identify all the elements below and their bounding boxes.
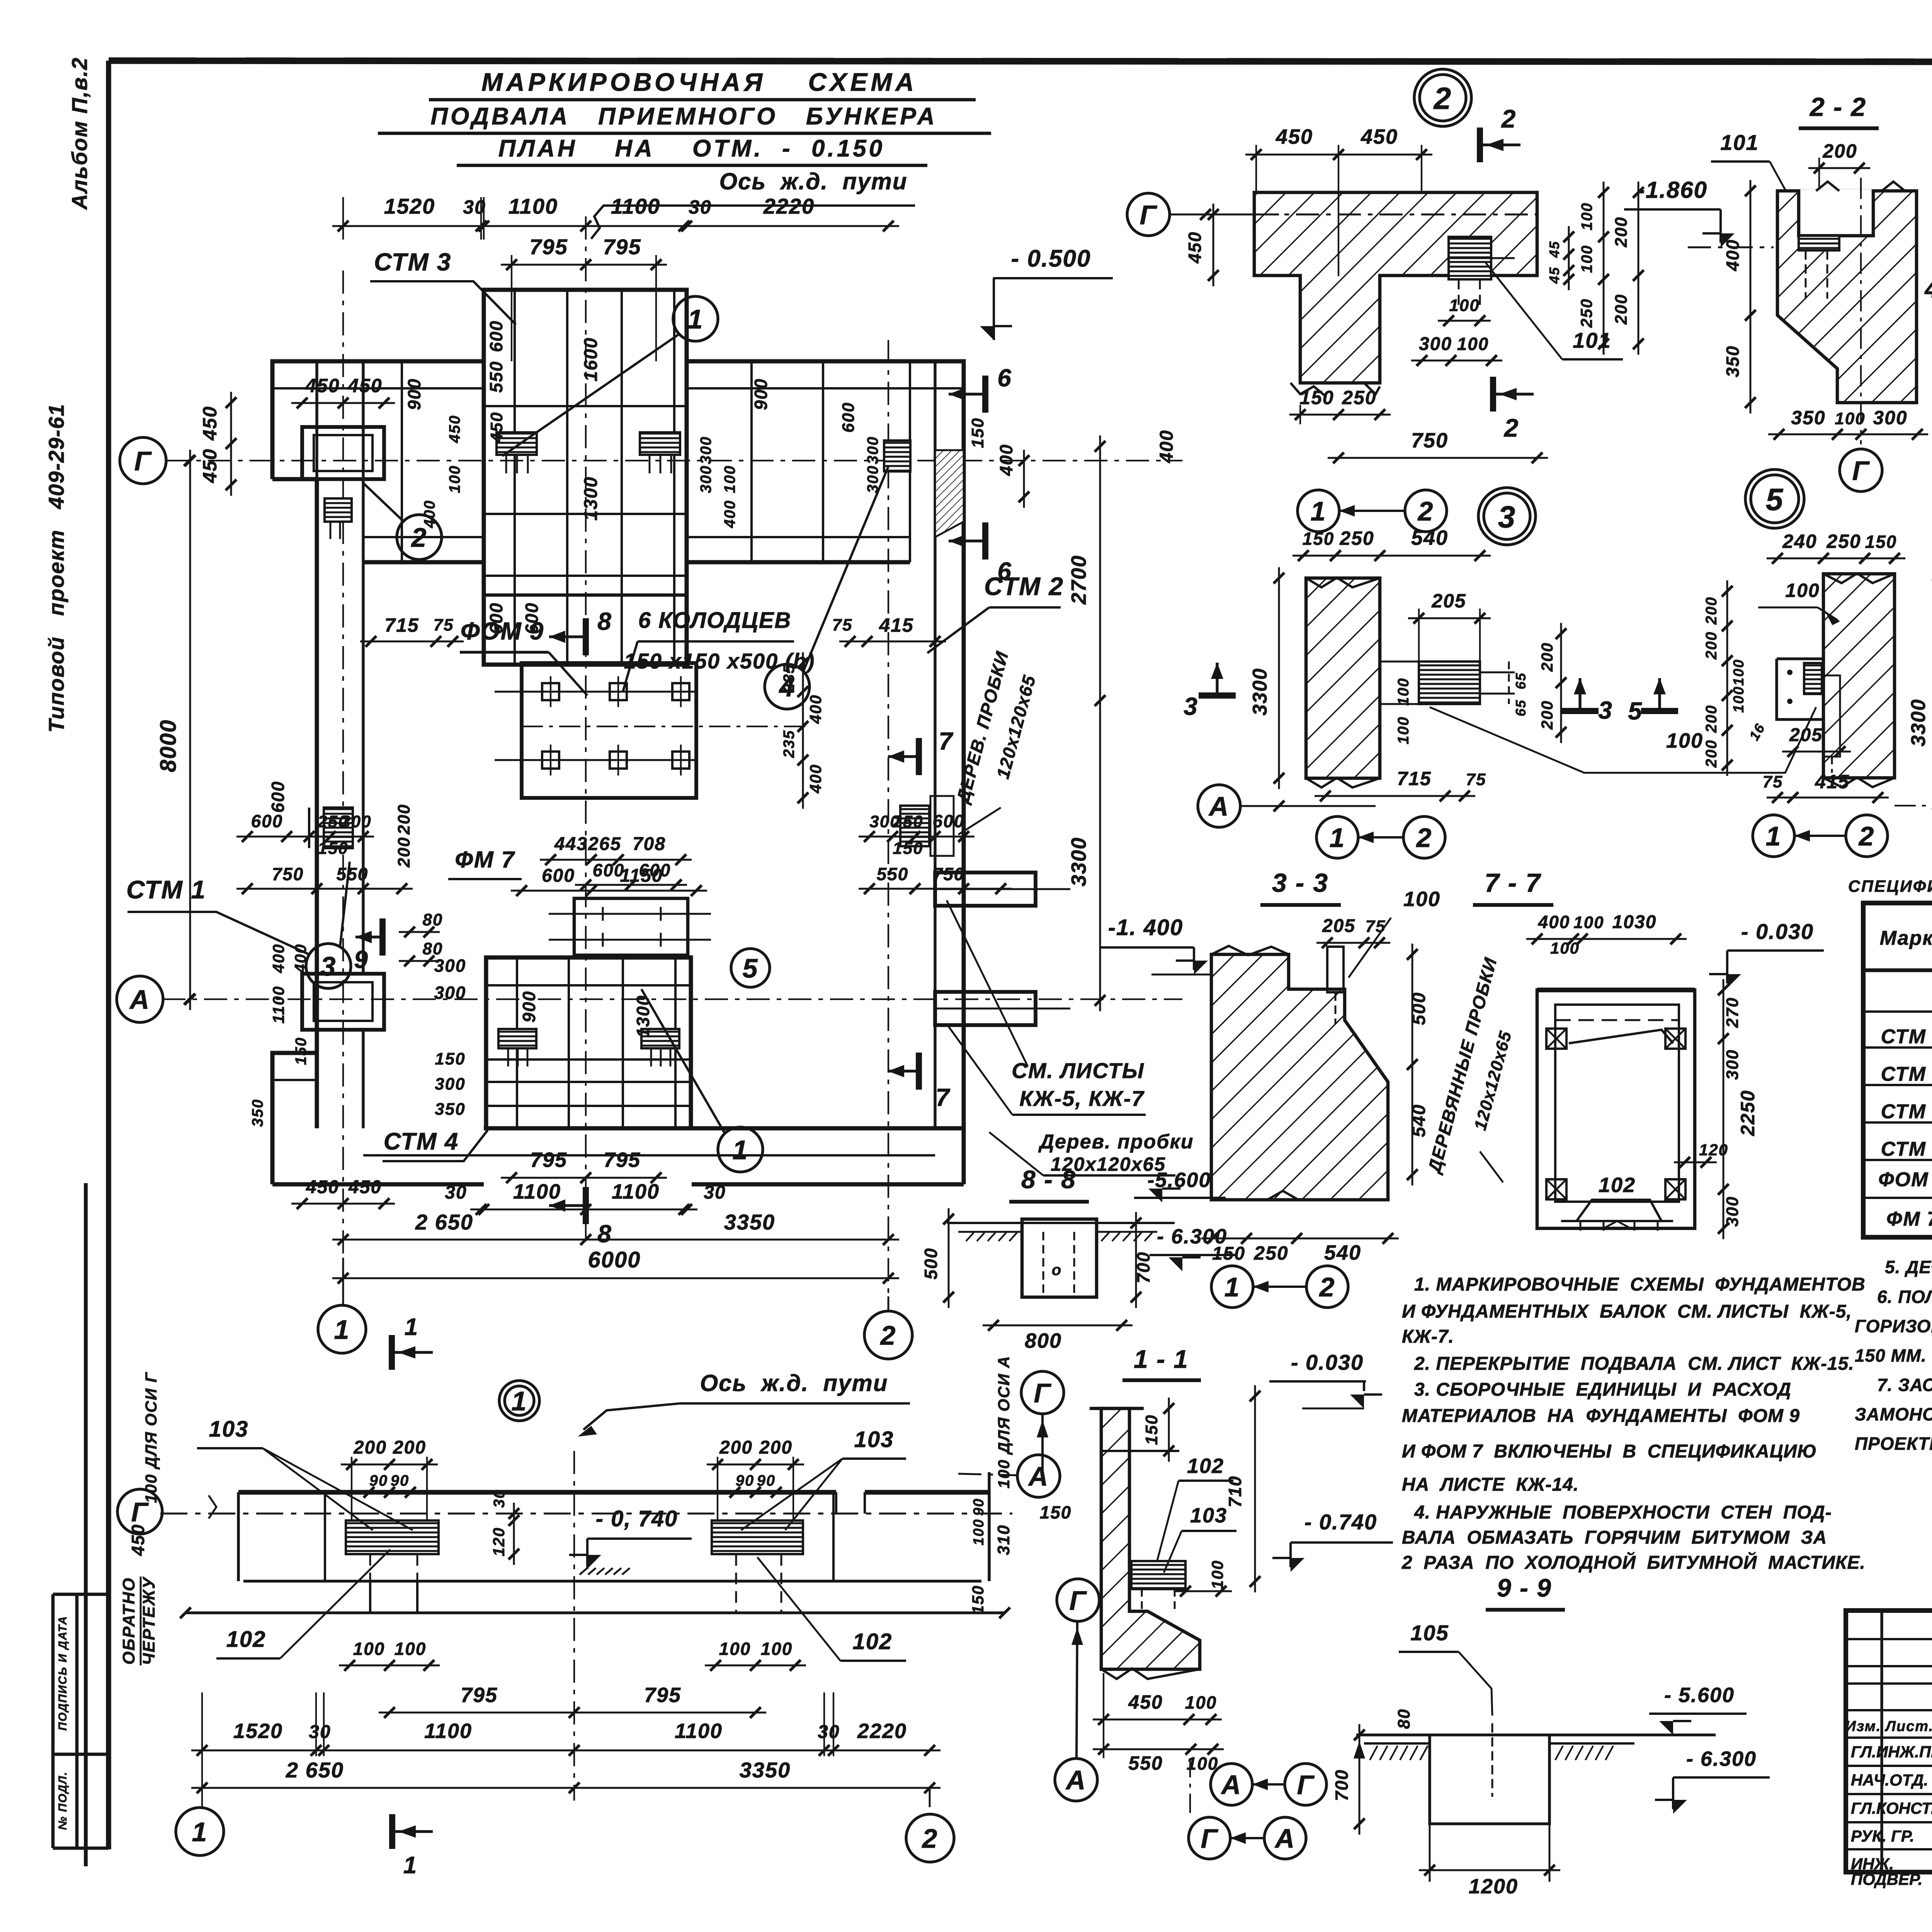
svg-text:450: 450 xyxy=(1361,125,1398,148)
svg-text:100: 100 xyxy=(1208,1560,1226,1589)
svg-text:200: 200 xyxy=(1612,216,1631,247)
svg-text:- 0.500: - 0.500 xyxy=(1011,245,1091,272)
svg-text:5: 5 xyxy=(743,953,759,983)
svg-text:101: 101 xyxy=(1720,130,1759,155)
svg-text:МАТЕРИАЛОВ НА ФУНДАМЕНТЫ ФО: МАТЕРИАЛОВ НА ФУНДАМЕНТЫ ФОМ 9 xyxy=(1402,1406,1800,1426)
notes block left (items 1-4) xyxy=(1401,1274,1866,1573)
svg-text:400: 400 xyxy=(806,694,825,724)
svg-text:Марка: Марка xyxy=(1880,927,1932,949)
title block: bottom row ПОДВЕР xyxy=(1851,1870,1932,1888)
section 7-7: level -0.030 xyxy=(1709,919,1824,988)
svg-text:100: 100 xyxy=(1731,686,1747,713)
detail 5: title circle xyxy=(1745,469,1804,528)
label СТМ4 xyxy=(383,1128,488,1161)
svg-text:120: 120 xyxy=(490,1527,508,1556)
svg-text:300: 300 xyxy=(697,465,714,493)
svg-text:600: 600 xyxy=(593,860,625,880)
svg-text:300: 300 xyxy=(864,436,881,464)
section 1-1: beam with plates (102/103) xyxy=(1131,1561,1185,1611)
svg-text:235: 235 xyxy=(781,730,798,759)
svg-text:6: 6 xyxy=(997,557,1012,585)
detail 2-2: level -1.860 xyxy=(1624,177,1774,247)
detail 3: anchor plate assembly xyxy=(1380,662,1515,704)
svg-text:450: 450 xyxy=(446,415,463,444)
section 9-9: leader 105 xyxy=(1399,1621,1492,1716)
svg-text:7: 7 xyxy=(935,1083,951,1111)
section 3-3: plate pocket dashed xyxy=(1306,947,1345,1024)
section 1-1: level -0.030 xyxy=(1269,1350,1382,1408)
section 1-1: hatched wall xyxy=(1090,1408,1200,1679)
svg-text:- 0, 740: - 0, 740 xyxy=(596,1506,678,1531)
svg-text:200: 200 xyxy=(395,804,413,835)
svg-text:1520: 1520 xyxy=(384,194,435,218)
sheet title: МАРКИРОВОЧНАЯ СХЕМА xyxy=(378,68,991,165)
section 3-3: level -1.400 xyxy=(1099,915,1211,975)
svg-text:45: 45 xyxy=(1546,267,1562,284)
detail 2: title circle xyxy=(1414,69,1471,126)
bottom plan: grid bubble Г left xyxy=(117,1489,162,1534)
svg-text:ГЛ.КОНСТ.: ГЛ.КОНСТ. xyxy=(1851,1799,1932,1817)
svg-text:550: 550 xyxy=(337,864,369,884)
section flag 9-9 upper xyxy=(354,918,383,973)
bottom plan: dim chain 2650/3350 xyxy=(191,1692,940,1808)
svg-text:100: 100 xyxy=(1785,580,1820,601)
svg-text:100: 100 xyxy=(1403,888,1440,911)
detail 2: anchor plate with bolts xyxy=(1449,237,1515,305)
svg-text:600: 600 xyxy=(486,602,506,634)
svg-text:3350: 3350 xyxy=(740,1758,791,1782)
bottom plan: section flag 1 top xyxy=(392,1314,433,1370)
svg-text:350: 350 xyxy=(249,1099,266,1127)
svg-text:100: 100 xyxy=(1578,245,1595,273)
svg-text:Г: Г xyxy=(1852,456,1870,486)
detail 3: dims 715/75 xyxy=(1315,768,1486,801)
section 8-8: footing with ground xyxy=(947,1219,1175,1297)
section 7-7: title xyxy=(1473,868,1553,905)
svg-text:2250: 2250 xyxy=(1737,1090,1759,1136)
foundation pad ФМ7 xyxy=(549,898,711,955)
svg-text:240: 240 xyxy=(1782,531,1817,552)
svg-text:400: 400 xyxy=(291,944,310,973)
svg-text:2220: 2220 xyxy=(763,194,815,218)
svg-text:9: 9 xyxy=(354,946,369,973)
svg-text:450: 450 xyxy=(199,406,221,440)
bottom plan: grid bubble А right xyxy=(958,1455,1060,1497)
label: Ось ж.д. пути (top plan) xyxy=(591,168,915,239)
svg-text:МАРКИРОВОЧНАЯ СХЕМА: МАРКИРОВОЧНАЯ СХЕМА xyxy=(481,68,917,96)
bottom plan: hatched block right (beam 103) xyxy=(712,1520,803,1613)
svg-text:150: 150 xyxy=(1299,387,1334,408)
detail 3: title circle xyxy=(1478,488,1536,545)
svg-text:205: 205 xyxy=(1322,916,1355,936)
svg-text:ЗАМОНОЛИЧИВАНИЯ ПОКРЫТИЯ И: ЗАМОНОЛИЧИВАНИЯ ПОКРЫТИЯ И ПОСЛЕ ДОСТИЖЕ… xyxy=(1855,1404,1932,1424)
svg-text:450: 450 xyxy=(305,375,340,396)
section flag 6-6 lower xyxy=(949,522,1012,585)
svg-text:150: 150 xyxy=(1040,1502,1072,1522)
detail 5: dims 75/415 xyxy=(1763,771,1889,803)
ФОМ9 dims 443/265/708 + 600/1150 xyxy=(511,834,707,896)
svg-text:2 650: 2 650 xyxy=(286,1758,344,1782)
specification row СТМ 1 xyxy=(1881,1026,1932,1048)
svg-text:3 - 3: 3 - 3 xyxy=(1272,868,1328,898)
detail 2: right vertical dims xyxy=(1546,182,1644,355)
right dim 400 top xyxy=(1156,430,1177,463)
svg-text:310: 310 xyxy=(994,1524,1013,1555)
svg-text:7: 7 xyxy=(939,727,954,755)
svg-text:3300: 3300 xyxy=(1907,699,1930,747)
svg-text:400: 400 xyxy=(806,764,825,794)
anchor plate on axis Г (right) xyxy=(640,432,680,473)
svg-text:200: 200 xyxy=(1703,597,1720,625)
foundation pad ФОМ9 xyxy=(495,663,808,798)
svg-text:-1. 400: -1. 400 xyxy=(1108,915,1184,940)
label 6 колодцев 150х150х500(h) xyxy=(623,608,815,692)
svg-text:2: 2 xyxy=(1858,821,1875,851)
svg-text:900: 900 xyxy=(519,991,539,1023)
detail 5: top dims 240/250/150 xyxy=(1767,531,1905,564)
svg-text:СТМ 2: СТМ 2 xyxy=(984,572,1064,600)
svg-text:150: 150 xyxy=(1142,1414,1161,1445)
bunker beam slots right wall xyxy=(935,872,1070,1025)
bottom plan: section flag 1 bottom xyxy=(392,1814,433,1879)
svg-text:90: 90 xyxy=(736,1472,755,1489)
svg-text:90: 90 xyxy=(971,1498,987,1516)
svg-text:250: 250 xyxy=(1826,531,1861,552)
bottom plan: dim chain 1520/30/1100/1100/30/2220 xyxy=(191,1692,940,1756)
svg-text:450: 450 xyxy=(1276,125,1313,148)
svg-text:СТМ 4: СТМ 4 xyxy=(384,1128,459,1155)
detail 5: bottom grid bubbles 1-2 xyxy=(1753,815,1888,857)
svg-text:100: 100 xyxy=(353,1639,385,1659)
svg-text:100: 100 xyxy=(1666,729,1703,752)
svg-text:200: 200 xyxy=(1822,140,1857,162)
grid bubble 2 (bottom of plan) xyxy=(864,1296,912,1359)
detail circle 1 with leader xyxy=(502,296,718,456)
left opening pad bottom (well) xyxy=(302,974,384,1030)
svg-text:30: 30 xyxy=(309,1722,331,1742)
svg-text:ОБРАТНО: ОБРАТНО xyxy=(119,1577,138,1665)
detail 5: hatched wall xyxy=(1823,573,1895,787)
svg-text:100 ДЛЯ ОСИ Г: 100 ДЛЯ ОСИ Г xyxy=(142,1372,160,1503)
bottom plan: dims 200/200 + 90/90 right block xyxy=(707,1437,804,1520)
grid bubble 1 (bottom of plan) xyxy=(318,1258,366,1353)
svg-text:100: 100 xyxy=(1185,1692,1217,1713)
anchor plate on axis А (right) xyxy=(641,1029,679,1066)
section 8-8: dims 500/700/800 + level -6.300 xyxy=(921,1208,1236,1352)
svg-text:540: 540 xyxy=(1409,1104,1429,1137)
svg-text:600: 600 xyxy=(542,866,575,886)
left opening pad top (well) xyxy=(302,427,384,479)
svg-text:1: 1 xyxy=(405,1314,418,1340)
svg-text:350: 350 xyxy=(435,1100,465,1119)
ФМ7 label and dims xyxy=(399,847,687,966)
section 9-9: pit section xyxy=(1356,1723,1716,1824)
svg-text:Ось ж.д. пути: Ось ж.д. пути xyxy=(700,1370,888,1396)
svg-text:30: 30 xyxy=(491,1489,508,1508)
detail 3: top dims 150/250/540 xyxy=(1293,526,1491,561)
label см.листы КЖ-5, КЖ-7 xyxy=(947,900,1146,1115)
svg-text:7. ЗАСЫПКУ ПАЗУХ КОТЛОВАНА: 7. ЗАСЫПКУ ПАЗУХ КОТЛОВАНА ГРУНТОМ ПРОИЗ… xyxy=(1877,1375,1932,1395)
svg-text:265: 265 xyxy=(588,834,621,854)
svg-text:795: 795 xyxy=(461,1684,498,1707)
svg-text:400: 400 xyxy=(421,500,438,529)
svg-text:450: 450 xyxy=(487,412,506,442)
detail 2: bottom grid bubbles 1-2 xyxy=(1298,490,1447,532)
svg-text:450: 450 xyxy=(1128,1691,1163,1713)
svg-text:А: А xyxy=(1221,1770,1242,1800)
specification table grid xyxy=(1863,903,1932,1237)
top dim chain 795/795 xyxy=(501,235,667,361)
section 1-1: bottom dims 450/100 550/100 xyxy=(1093,1673,1224,1816)
svg-text:300: 300 xyxy=(1873,407,1907,429)
svg-text:СТМ 4: СТМ 4 xyxy=(1881,1138,1932,1160)
detail 2: grid bubble Г with axis xyxy=(1127,193,1537,236)
svg-text:600: 600 xyxy=(268,781,288,813)
level mark -0.500 xyxy=(980,245,1113,340)
svg-text:100: 100 xyxy=(1457,334,1489,354)
svg-text:Г: Г xyxy=(1034,1378,1052,1408)
svg-text:700: 700 xyxy=(1332,1769,1352,1801)
svg-text:300: 300 xyxy=(1419,334,1452,354)
svg-text:100: 100 xyxy=(971,1519,987,1545)
section 1-1: leader 103 xyxy=(1164,1504,1236,1573)
svg-text:СПЕЦИФИКАЦИЯ ЭЛЕМЕНТОВ К МАРКИ: СПЕЦИФИКАЦИЯ ЭЛЕМЕНТОВ К МАРКИРОВОЧНЫМ С… xyxy=(1848,877,1932,896)
svg-text:А: А xyxy=(129,985,150,1015)
svg-text:2: 2 xyxy=(1501,104,1517,133)
svg-text:300: 300 xyxy=(434,983,466,1003)
title block grid xyxy=(1846,1611,1932,1872)
grid axis Г (horizontal dash-dot) xyxy=(166,460,1182,461)
svg-text:1: 1 xyxy=(1766,821,1782,851)
label СТМ3 xyxy=(370,248,516,325)
svg-text:105: 105 xyxy=(1410,1621,1449,1645)
svg-text:1: 1 xyxy=(512,1386,527,1416)
svg-text:1: 1 xyxy=(403,1852,417,1879)
svg-text:СТМ 1: СТМ 1 xyxy=(126,875,206,904)
detail 2-2: grid bubble Г bottom xyxy=(1840,449,1882,492)
label дерев.пробки 120х120х65 (bottom) xyxy=(989,1131,1194,1175)
svg-text:795: 795 xyxy=(530,1148,567,1172)
grid bubble А (left) xyxy=(117,976,195,1022)
svg-text:Ось ж.д. пути: Ось ж.д. пути xyxy=(719,168,908,194)
svg-text:1100: 1100 xyxy=(424,1719,472,1743)
svg-text:103: 103 xyxy=(854,1427,894,1452)
svg-text:5: 5 xyxy=(1766,482,1784,517)
svg-text:1030: 1030 xyxy=(1612,912,1657,932)
svg-text:№ ПОДЛ.: № ПОДЛ. xyxy=(56,1771,69,1830)
svg-text:300: 300 xyxy=(697,436,714,464)
bottom-left wall block xyxy=(272,1053,964,1184)
title block: staff rows xyxy=(1851,1742,1932,1873)
svg-text:250: 250 xyxy=(892,812,923,831)
svg-text:102: 102 xyxy=(1599,1173,1636,1197)
detail 3: grid bubble А + axis xyxy=(1198,785,1376,827)
svg-text:150: 150 xyxy=(968,417,987,448)
section 3-3: level -5.600 xyxy=(1134,1168,1226,1202)
left dims 600 and ties lower area xyxy=(249,781,310,1127)
detail 2-2: bottom dims 350/100/300 xyxy=(1768,407,1928,440)
svg-text:90: 90 xyxy=(369,1472,388,1489)
svg-text:2 - 2: 2 - 2 xyxy=(1809,92,1866,122)
section 1-1: leader 102 xyxy=(1157,1454,1233,1560)
anchor plate lower-left wall xyxy=(325,498,352,539)
ФОМ9 rotated dims 235/235/400/400 xyxy=(781,652,825,809)
detail 3: 100 leader to detail 5 xyxy=(1430,707,1816,773)
svg-text:550: 550 xyxy=(1128,1752,1163,1774)
svg-text:150: 150 xyxy=(969,1585,987,1614)
section 7-7: rotated label деревянные пробки xyxy=(1423,955,1515,1182)
svg-text:708: 708 xyxy=(633,834,666,854)
svg-text:1: 1 xyxy=(1225,1272,1240,1302)
svg-text:270: 270 xyxy=(1723,997,1742,1028)
svg-text:4: 4 xyxy=(1924,275,1932,303)
svg-text:3: 3 xyxy=(1184,692,1198,720)
svg-text:102: 102 xyxy=(853,1629,893,1654)
svg-text:ПОДВЕР.: ПОДВЕР. xyxy=(1851,1870,1922,1888)
svg-text:ФМ 7: ФМ 7 xyxy=(1886,1208,1932,1230)
detail circle 1 lower with leader xyxy=(641,989,763,1172)
svg-text:А: А xyxy=(1274,1823,1296,1854)
svg-text:1100: 1100 xyxy=(675,1719,723,1743)
svg-text:6000: 6000 xyxy=(588,1247,641,1272)
section 3-3: leader 100 xyxy=(1349,888,1440,978)
notes block right (items 5-7) xyxy=(1855,1257,1932,1454)
detail 2-2: hatched wall section xyxy=(1777,182,1917,403)
bottom plan: railway axis vertical xyxy=(573,1451,575,1801)
svg-text:2: 2 xyxy=(1433,81,1452,116)
svg-text:1100: 1100 xyxy=(611,194,660,218)
svg-text:2: 2 xyxy=(1319,1272,1335,1302)
svg-text:200: 200 xyxy=(719,1437,753,1458)
svg-text:ФОМ 9: ФОМ 9 xyxy=(1878,1168,1932,1191)
svg-text:Г: Г xyxy=(1140,200,1158,230)
svg-text:100: 100 xyxy=(1449,296,1480,315)
svg-text:250: 250 xyxy=(1342,387,1376,408)
section 7-7: top dims 400/100/1030 xyxy=(1526,912,1687,957)
svg-text:1. МАРКИРОВОЧНЫЕ СХЕМЫ ФУНДА: 1. МАРКИРОВОЧНЫЕ СХЕМЫ ФУНДАМЕНТОВ xyxy=(1414,1274,1866,1295)
svg-text:- 6.300: - 6.300 xyxy=(1686,1747,1757,1770)
detail 5: section 5 flag xyxy=(1628,678,1678,725)
right side dims 150/400 near top xyxy=(968,417,1029,508)
bottom plan: axis Г dash-dot + beam outline xyxy=(160,1472,1012,1618)
svg-text:4. НАРУЖНЫЕ ПОВЕРХНОСТИ СТЕН: 4. НАРУЖНЫЕ ПОВЕРХНОСТИ СТЕН ПОД- xyxy=(1414,1502,1832,1523)
svg-text:200: 200 xyxy=(353,1437,387,1458)
svg-text:120: 120 xyxy=(1699,1141,1728,1159)
svg-text:ФМ 7: ФМ 7 xyxy=(455,847,515,872)
svg-text:600: 600 xyxy=(639,860,671,880)
svg-text:250: 250 xyxy=(1253,1242,1288,1264)
bottom plan: grid bubble 2 xyxy=(906,1788,954,1862)
svg-text:100: 100 xyxy=(395,1639,427,1659)
svg-text:ВАЛА ОБМАЗАТЬ ГОРЯЧИМ БИТУМ: ВАЛА ОБМАЗАТЬ ГОРЯЧИМ БИТУМОМ ЗА xyxy=(1402,1527,1827,1548)
svg-text:И ФУНДАМЕНТНЫХ БАЛОК СМ. ЛИС: И ФУНДАМЕНТНЫХ БАЛОК СМ. ЛИСТЫ КЖ-5, xyxy=(1402,1301,1852,1322)
svg-text:540: 540 xyxy=(1324,1241,1361,1264)
svg-text:1100: 1100 xyxy=(513,1180,561,1203)
svg-text:- 5.600: - 5.600 xyxy=(1664,1684,1735,1707)
svg-text:2: 2 xyxy=(1503,413,1519,442)
bottom plan: label Ось ж.д. пути xyxy=(578,1370,910,1437)
svg-text:450: 450 xyxy=(348,1177,382,1197)
detail 5: dim 205 xyxy=(1782,725,1851,757)
svg-text:200: 200 xyxy=(759,1437,793,1458)
svg-text:НА ЛИСТЕ КЖ-14.: НА ЛИСТЕ КЖ-14. xyxy=(1402,1475,1579,1495)
detail circle 3 with leader xyxy=(306,862,351,988)
svg-text:795: 795 xyxy=(604,1148,641,1172)
svg-text:Дерев. пробки: Дерев. пробки xyxy=(1038,1131,1194,1153)
grid bubble Г (left) xyxy=(120,437,195,484)
section 1-1: dim 100 rotated xyxy=(1175,1560,1232,1597)
svg-text:1: 1 xyxy=(1311,496,1327,526)
specification row СТМ 3 xyxy=(1881,1100,1932,1123)
left dims 450/450 bottom pads xyxy=(291,1177,395,1209)
svg-text:600: 600 xyxy=(486,320,506,352)
svg-text:5: 5 xyxy=(1628,697,1643,725)
specification table column headers xyxy=(1880,919,1932,961)
svg-text:8: 8 xyxy=(597,607,612,635)
svg-text:- 0.740: - 0.740 xyxy=(1304,1510,1377,1534)
svg-text:101: 101 xyxy=(1573,328,1611,352)
svg-text:450: 450 xyxy=(199,448,221,483)
svg-text:100: 100 xyxy=(1835,409,1865,428)
svg-text:80: 80 xyxy=(1395,1709,1413,1729)
svg-text:300: 300 xyxy=(435,1075,465,1094)
right vertical dims 2700/3300 xyxy=(1067,435,1105,1011)
svg-text:Г: Г xyxy=(1070,1585,1087,1616)
section 3-3: right dims 500/540 xyxy=(1407,944,1429,1185)
svg-text:30: 30 xyxy=(818,1722,840,1742)
svg-text:1: 1 xyxy=(688,304,704,334)
svg-text:150: 150 xyxy=(293,1037,310,1065)
specification table header text xyxy=(1848,877,1932,896)
svg-text:150: 150 xyxy=(1303,529,1335,549)
block СТМ4 (lower centre) xyxy=(486,957,691,1128)
bottom plan: leader 102 left xyxy=(216,1549,390,1658)
section 7-7: right dims 270/300/2250/120/300 xyxy=(1674,979,1759,1239)
svg-text:540: 540 xyxy=(1411,526,1448,549)
svg-text:100: 100 xyxy=(1395,678,1412,706)
svg-text:3350: 3350 xyxy=(724,1210,776,1234)
anchor plate at joint (circle 4 target) xyxy=(884,440,910,471)
svg-text:1520: 1520 xyxy=(233,1719,283,1743)
svg-text:205: 205 xyxy=(1789,725,1823,745)
svg-text:235: 235 xyxy=(781,664,798,693)
detail 2-2: dim 200 top xyxy=(1808,140,1870,236)
svg-text:1300: 1300 xyxy=(581,476,601,521)
svg-text:65: 65 xyxy=(1513,699,1529,716)
margin text: обратно чертежу xyxy=(119,1576,158,1665)
svg-text:75: 75 xyxy=(1466,770,1486,789)
svg-text:900: 900 xyxy=(751,378,771,410)
detail 3: rotated dims 100/100 left xyxy=(1395,678,1412,745)
dims 715/75 left xyxy=(360,614,464,647)
section 1-1: dim 150 top xyxy=(1142,1398,1174,1462)
svg-text:1600: 1600 xyxy=(581,337,601,382)
bottom plan: rotated labels 100 для оси Г / А xyxy=(128,1355,1071,1614)
detail 2: section cut 2 flags xyxy=(1480,104,1534,442)
svg-text:350: 350 xyxy=(1791,407,1825,429)
svg-text:1: 1 xyxy=(733,1135,748,1165)
detail circle 4 with leader xyxy=(765,466,889,709)
svg-text:3: 3 xyxy=(321,951,337,981)
detail 3: rotated dims 65/65 + 200/200 right xyxy=(1513,623,1566,743)
svg-text:400: 400 xyxy=(1156,430,1177,463)
svg-text:Г: Г xyxy=(1201,1823,1219,1854)
detail 2: leader 101 xyxy=(1486,263,1623,359)
svg-text:150: 150 xyxy=(435,1049,465,1068)
svg-text:2220: 2220 xyxy=(857,1719,907,1743)
detail 3: section 3 flags xyxy=(1184,663,1613,724)
svg-text:600: 600 xyxy=(251,811,283,831)
